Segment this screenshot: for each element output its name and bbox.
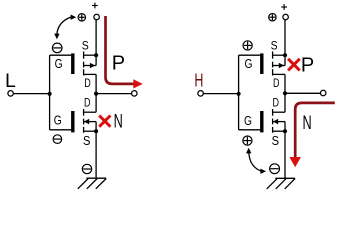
left NMOS Q2 drain lead (top) xyxy=(84,111,97,113)
left supply + label xyxy=(92,3,98,9)
right NMOS body-to-source wire xyxy=(284,122,286,132)
svg-text:G: G xyxy=(55,56,63,71)
left input terminal xyxy=(8,91,14,97)
right curved arrow from plus to minus xyxy=(246,148,266,174)
svg-text:N: N xyxy=(303,113,312,134)
left wire output node to NMOS drain xyxy=(95,94,97,113)
right NMOS Q4 body lead with inward arrow xyxy=(273,119,285,125)
right output wire xyxy=(285,92,320,94)
left PMOS Q1 drain lead (bottom) xyxy=(84,73,97,75)
right input wire xyxy=(203,93,238,95)
right plus symbol above PMOS gate xyxy=(243,41,252,50)
right supply wire down to PMOS xyxy=(284,20,286,66)
right wire down to ground xyxy=(284,131,286,178)
right input junction dot xyxy=(237,92,241,96)
svg-text:P: P xyxy=(112,53,125,75)
right PMOS Q3 drain lead (bottom) xyxy=(273,73,285,75)
right NMOS Q4 drain lead (top) xyxy=(273,111,285,113)
right ground symbol xyxy=(267,178,295,189)
right red X blocked PMOS xyxy=(288,59,300,71)
right plus symbol below NMOS gate xyxy=(243,136,252,145)
right NMOS Q4 channel segments xyxy=(272,109,274,133)
right NMOS Q4 source lead (bottom) xyxy=(273,130,285,132)
left input junction dot xyxy=(48,92,52,96)
left minus symbol above PMOS gate xyxy=(52,43,62,53)
left NMOS Q2 source lead (bottom) xyxy=(84,130,97,132)
left gate-charge plus symbol xyxy=(78,14,85,21)
right supply + label xyxy=(281,4,287,10)
right output terminal xyxy=(320,90,326,96)
left minus symbol at ground wire xyxy=(82,164,91,173)
svg-text:H: H xyxy=(194,70,203,91)
svg-text:P: P xyxy=(301,54,314,76)
left NMOS Q2 gate lead wire xyxy=(50,129,72,131)
svg-text:D: D xyxy=(273,76,280,90)
left NMOS body-to-source wire xyxy=(95,122,97,132)
left PMOS source junction dot xyxy=(94,53,98,57)
svg-text:S: S xyxy=(271,40,278,52)
left NMOS Q2 gate bar xyxy=(71,111,74,132)
left wire down to ground xyxy=(95,131,97,178)
right supply terminal xyxy=(283,14,289,20)
right red current arrow through NMOS to ground xyxy=(289,103,334,167)
left NMOS Q2 body lead with inward arrow xyxy=(84,119,97,125)
left PMOS Q1 gate lead wire xyxy=(50,54,72,56)
svg-text:G: G xyxy=(244,113,252,128)
right PMOS Q3 channel segments xyxy=(272,52,274,76)
left output wire xyxy=(96,93,131,95)
svg-text:S: S xyxy=(82,40,89,52)
left supply wire down to PMOS xyxy=(95,20,97,66)
left supply terminal xyxy=(94,14,100,20)
right input terminal xyxy=(198,91,204,97)
right output node dot xyxy=(283,91,287,95)
svg-text:D: D xyxy=(84,95,91,109)
right PMOS Q3 gate lead wire xyxy=(239,54,261,56)
left gate bus wire vertical xyxy=(49,55,51,130)
left output terminal xyxy=(132,91,138,97)
svg-text:L: L xyxy=(5,70,16,92)
right plus symbol at supply xyxy=(269,14,276,21)
right PMOS source junction dot xyxy=(283,53,287,57)
svg-text:D: D xyxy=(84,76,91,90)
right wire output node to NMOS drain xyxy=(284,93,286,112)
svg-text:S: S xyxy=(272,134,279,148)
right PMOS Q3 body lead with outward arrow xyxy=(273,63,285,69)
left NMOS Q2 channel segments xyxy=(83,109,85,133)
left input wire xyxy=(13,93,49,95)
right PMOS Q3 gate bar xyxy=(260,53,263,74)
left NMOS source junction dot xyxy=(94,129,98,133)
left PMOS Q1 gate bar xyxy=(71,53,74,74)
svg-text:G: G xyxy=(54,113,62,128)
left PMOS Q1 channel segments xyxy=(83,52,85,76)
right minus symbol at ground wire xyxy=(270,164,280,174)
left red current arrow through PMOS xyxy=(106,16,143,89)
left red X blocked NMOS xyxy=(99,116,110,127)
right PMOS Q3 source lead (top) xyxy=(273,54,285,56)
left minus symbol below NMOS gate xyxy=(53,135,62,144)
left curved arrow from minus to plus xyxy=(54,15,76,40)
right NMOS source junction dot xyxy=(283,129,287,133)
right NMOS Q4 gate lead wire xyxy=(239,129,261,131)
left wire PMOS drain to output node xyxy=(95,74,97,93)
left PMOS Q1 body lead with outward arrow xyxy=(84,63,97,69)
right wire PMOS drain to output node xyxy=(284,74,286,93)
svg-text:D: D xyxy=(273,95,280,109)
svg-text:N: N xyxy=(114,111,123,132)
left output node dot xyxy=(94,92,98,96)
right NMOS Q4 gate bar xyxy=(260,111,263,132)
svg-text:S: S xyxy=(83,134,90,148)
svg-text:G: G xyxy=(245,56,253,71)
left ground symbol xyxy=(78,178,106,189)
left PMOS Q1 source lead (top) xyxy=(84,54,97,56)
right gate bus wire vertical xyxy=(238,55,240,130)
